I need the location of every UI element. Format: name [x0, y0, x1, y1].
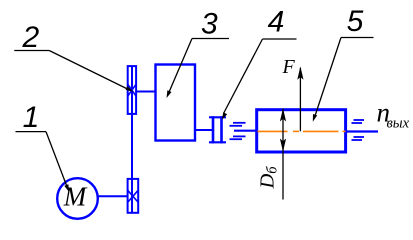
- coupling bottom cap: [209, 141, 226, 143]
- drum rect: [257, 110, 346, 152]
- wire gearbox output shaft to coupling: [195, 129, 214, 131]
- svg-text:3: 3: [201, 8, 218, 41]
- shaft break marks right lower: [354, 136, 365, 138]
- force F arrow line: [299, 68, 301, 131]
- svg-text:5: 5: [347, 5, 364, 38]
- svg-text:F: F: [282, 56, 296, 78]
- motor M1 circle: [57, 178, 98, 219]
- dimension Db line: [282, 109, 284, 200]
- pulley upper (driven) rect: [128, 66, 136, 114]
- svg-text:вых: вых: [387, 116, 410, 132]
- svg-text:1: 1: [23, 101, 40, 134]
- gearbox (reducer) rect: [156, 65, 196, 141]
- svg-text:2: 2: [22, 21, 40, 54]
- leader 5: [314, 38, 341, 119]
- coupling left flange bar: [212, 116, 215, 143]
- drum axis centerline (orange dash-dot): [258, 130, 288, 132]
- shaft break marks left lower: [233, 135, 246, 137]
- wire motor shaft to lower pulley: [97, 195, 128, 197]
- pulley lower (driver) rect: [128, 179, 139, 213]
- pulley upper cross: [128, 84, 136, 96]
- shaft break marks right upper: [354, 119, 365, 121]
- pulley lower cross: [128, 190, 139, 202]
- belt line: [131, 66, 133, 213]
- leader 3: [168, 39, 192, 95]
- wire drum output stub: [346, 130, 378, 132]
- svg-text:4: 4: [268, 6, 285, 39]
- coupling top cap: [209, 116, 226, 118]
- shaft break marks left upper: [233, 122, 246, 124]
- wire pulley to gearbox input shaft: [136, 91, 156, 93]
- leader 1: [46, 132, 68, 188]
- leader 4: [224, 39, 263, 114]
- wire drum input stub: [234, 130, 257, 132]
- leader 2: [49, 51, 130, 91]
- coupling right flange bar: [220, 116, 223, 143]
